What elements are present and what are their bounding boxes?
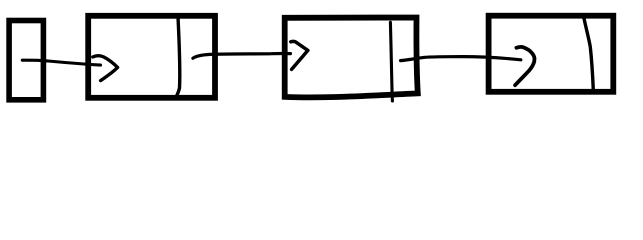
node 3 box	[489, 16, 614, 92]
wire arrow 3 shaft	[401, 57, 521, 61]
node 1 box	[88, 16, 215, 98]
head pointer box	[9, 21, 43, 100]
node 2 divider	[390, 22, 392, 101]
wire arrow 2 head	[291, 41, 308, 69]
node 1 divider	[177, 17, 180, 95]
node 2 box	[285, 18, 418, 98]
wire arrow 1 shaft	[22, 60, 100, 65]
wire arrow 1 head	[93, 56, 118, 81]
node 3 divider	[584, 17, 594, 91]
wire arrow 2 shaft	[193, 54, 291, 59]
wire arrow 3 head	[515, 47, 534, 85]
